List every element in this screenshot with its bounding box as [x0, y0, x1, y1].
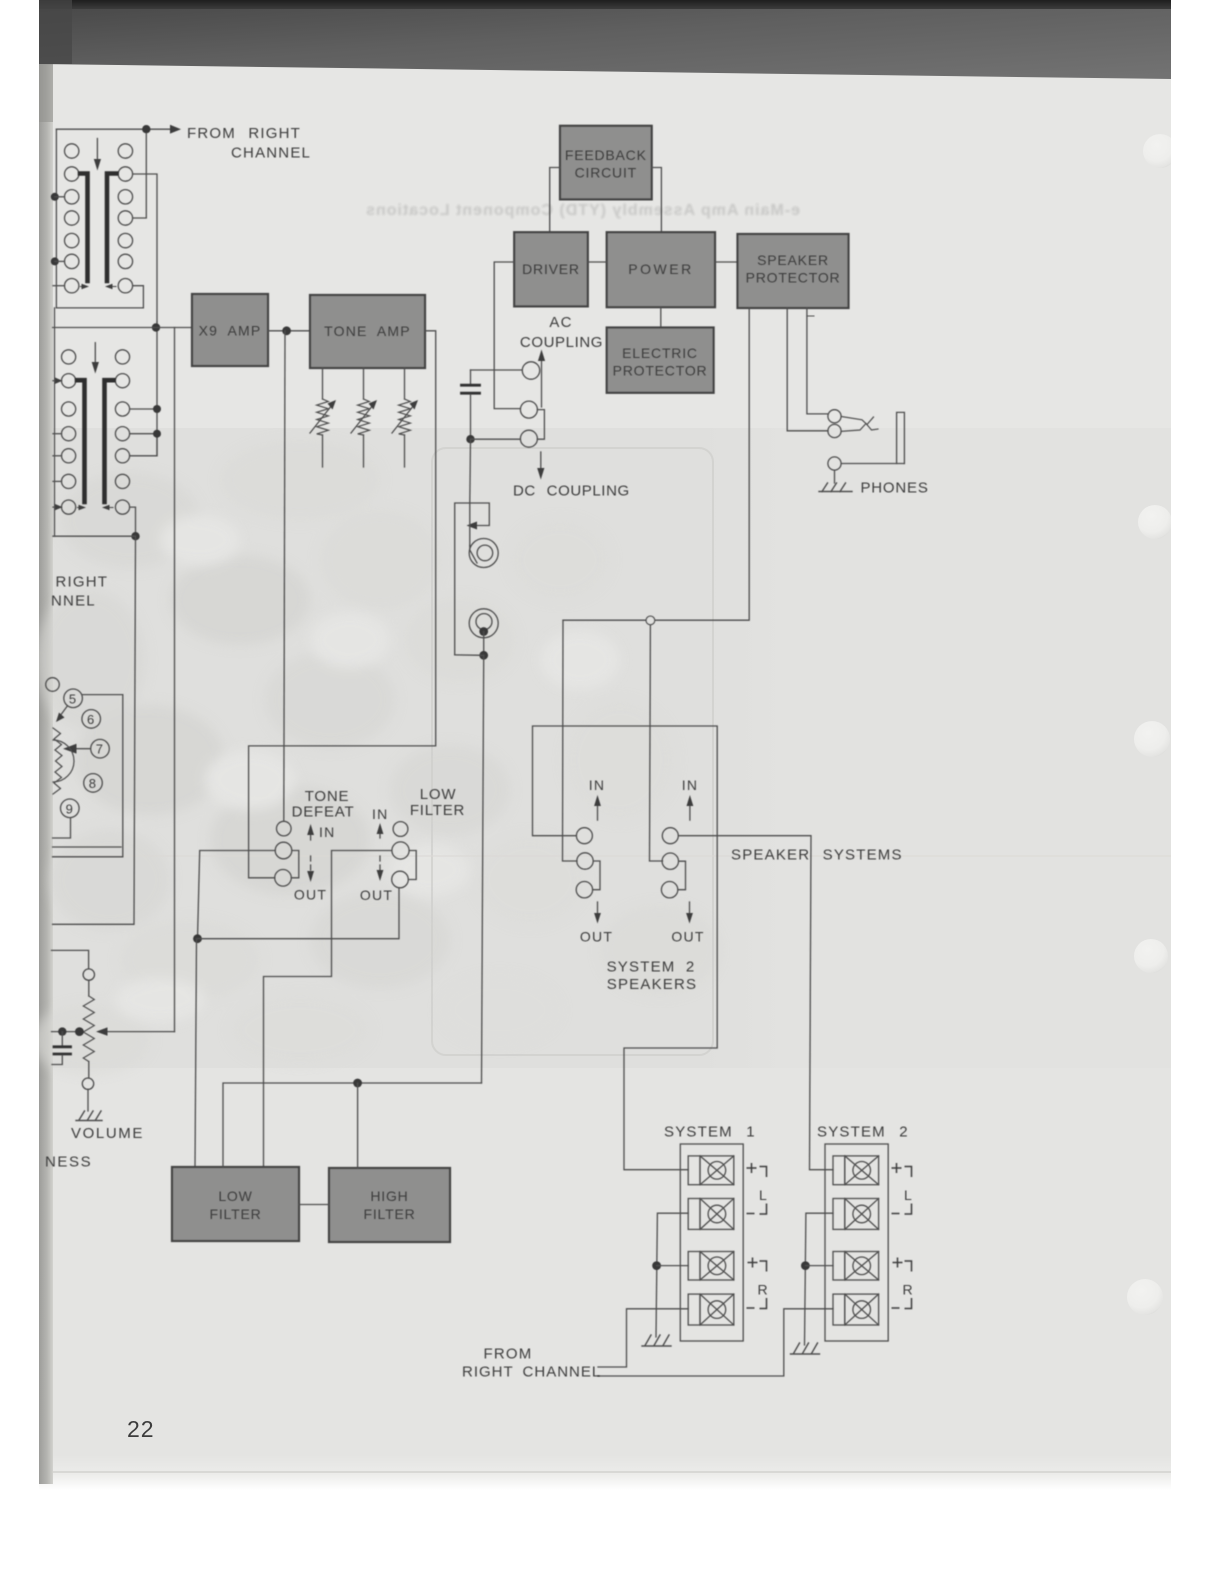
terminal 2 -L	[688, 1199, 734, 1230]
svg-text:IN: IN	[372, 806, 388, 822]
switch A contact bottom	[576, 882, 592, 898]
svg-text:R: R	[903, 1282, 914, 1298]
svg-text:FILTER: FILTER	[364, 1206, 416, 1222]
resistor volume	[83, 980, 94, 1078]
ground phones	[819, 483, 852, 492]
svg-text:IN: IN	[319, 824, 335, 840]
svg-text:SYSTEM 1: SYSTEM 1	[664, 1124, 756, 1141]
rheostat VR bass	[310, 368, 336, 467]
wire TONE AMP out right loop down	[249, 331, 436, 878]
output coil loop rectangle	[455, 503, 490, 655]
arrow switch A out (down)	[597, 902, 599, 916]
wire S1 row7 right to box bottom	[56, 286, 143, 308]
svg-text:OUT: OUT	[294, 887, 327, 903]
switch S2 left wiper bar	[77, 380, 85, 502]
node circle 6	[82, 710, 101, 729]
switch low filter contact bottom	[392, 871, 409, 888]
switch S2 bottom wiper arrow left	[78, 507, 82, 509]
arrow switch B in (up)	[689, 803, 691, 820]
polarity marks system 2 R	[892, 1258, 912, 1309]
wire speaker protector out1 down-left	[563, 308, 749, 620]
wire S2 row4 right to bus B	[130, 433, 157, 435]
node dot wiper	[75, 1027, 84, 1036]
trimmer knob (page edge)	[53, 728, 62, 794]
switch low filter contact top	[393, 822, 408, 837]
ground volume	[76, 1111, 102, 1121]
switch low filter contact mid	[392, 842, 409, 859]
node dot bus B row4	[153, 430, 161, 438]
coil L2 (spiral)	[469, 609, 498, 638]
wire filter bus	[223, 1083, 482, 1167]
svg-text:RIGHT: RIGHT	[56, 574, 109, 591]
svg-text:FROM RIGHT: FROM RIGHT	[187, 125, 301, 142]
node circle 9	[61, 799, 80, 818]
bracket tone defeat	[292, 851, 299, 878]
switch S2 right wiper bar	[105, 380, 114, 502]
wire volume top feed	[52, 950, 89, 969]
switch A contact top	[576, 828, 592, 844]
svg-text:22: 22	[127, 1416, 155, 1442]
svg-text:VOLUME: VOLUME	[71, 1125, 144, 1142]
svg-text:SYSTEM 2: SYSTEM 2	[817, 1124, 909, 1141]
wire S1 row4 right to top node	[133, 133, 147, 218]
capacitor loudness	[52, 1032, 71, 1065]
polarity marks system 1 R	[747, 1258, 767, 1309]
wire frame to switch A top	[533, 726, 718, 1170]
wire stub S2 row5 left	[53, 455, 62, 457]
switch B contact bottom	[661, 882, 677, 898]
svg-text:X9 AMP: X9 AMP	[199, 323, 262, 339]
wire stub S1 row6	[55, 260, 65, 262]
right white margin cover	[1171, 0, 1224, 1584]
wire stub S2 row4 left	[53, 433, 62, 435]
svg-text:5: 5	[69, 691, 77, 706]
wire feedback left to driver top	[550, 168, 560, 233]
wire feedback right to power top	[652, 168, 662, 233]
terminal 1 +L	[688, 1156, 734, 1185]
rheostat VR mid	[351, 368, 377, 467]
svg-text:HIGH: HIGH	[370, 1188, 408, 1204]
terminal volume bottom	[82, 1078, 93, 1089]
wire sys1 -L to ground	[656, 1213, 688, 1337]
wire loudness tap	[52, 1031, 83, 1033]
wire high filter feed	[357, 1083, 359, 1168]
wire DC path to bottom contact	[471, 438, 521, 440]
switch tone defeat contact mid	[275, 842, 292, 859]
phones jack contact top	[828, 410, 841, 423]
svg-text:CIRCUIT: CIRCUIT	[575, 165, 637, 181]
bracket coupling switch	[537, 410, 544, 440]
svg-text:SPEAKERS: SPEAKERS	[607, 976, 697, 993]
phones jack contact mid	[828, 424, 841, 437]
arrow stub S2 row7 left	[53, 506, 62, 508]
wiper arrow volume	[104, 1031, 175, 1033]
node dot high filter feed	[353, 1079, 362, 1088]
wire stub S1 row3	[55, 196, 65, 198]
svg-text:OUT: OUT	[671, 929, 704, 945]
ground system 1	[642, 1335, 671, 1346]
node dot DC path	[466, 435, 474, 443]
node dot S1 row3 left edge	[51, 193, 59, 201]
svg-text:TONE AMP: TONE AMP	[324, 323, 411, 339]
wire sys1 -R from right channel	[598, 1309, 688, 1367]
switch B contact mid	[662, 853, 678, 869]
switch S1 bottom wiper arrow left	[81, 286, 85, 288]
wire volume ground stub	[87, 1089, 89, 1111]
arrow stub S2 row2 left	[53, 380, 62, 382]
svg-text:e-Main Amp Assembly (YTD) Comp: e-Main Amp Assembly (YTD) Component Loca…	[365, 202, 800, 219]
svg-text:RIGHT CHANNEL: RIGHT CHANNEL	[462, 1364, 601, 1381]
node circle 5	[64, 689, 83, 708]
switch S2 rotation arrow	[94, 343, 96, 365]
arrow switch B out (down)	[689, 902, 691, 916]
terminal strip 2 outline	[825, 1144, 888, 1341]
node dot under coil L2	[479, 627, 488, 636]
wire sys2 -R from right channel	[598, 1309, 833, 1376]
arrow low filter out (down, dashed)	[379, 856, 381, 873]
node connector open circle	[646, 616, 655, 625]
wire stub S2 row6 left	[53, 480, 62, 482]
node dot sys2 common	[801, 1261, 810, 1270]
wire S2 row5 right hook to bus B	[130, 434, 157, 456]
node dot bus B row3	[153, 405, 161, 413]
wire tone defeat mid to left	[198, 851, 276, 939]
svg-text:DC COUPLING: DC COUPLING	[513, 483, 630, 500]
node dot loudness cap	[58, 1027, 66, 1035]
pointer from circle 5	[60, 706, 68, 716]
wire X9 to TONE AMP	[268, 330, 310, 332]
ghost printing bleed-through	[365, 202, 800, 219]
bus B vertical (selector output)	[156, 322, 158, 456]
bracket switch B	[678, 861, 686, 890]
watermark / bleedthrough	[30, 202, 1171, 1075]
node dot speaker feed junction	[479, 651, 488, 660]
wire driver input from coupling switch	[494, 262, 520, 409]
wire into coil L1	[469, 503, 471, 546]
switch B contact top	[662, 828, 678, 844]
switch S2 bottom wiper arrow right	[109, 507, 113, 509]
node dot lower-left feed	[131, 532, 139, 540]
wire loop return	[455, 654, 484, 656]
svg-text:8: 8	[89, 776, 97, 791]
pointer from circle 7	[76, 748, 91, 750]
switch S1 bottom wiper arrow right	[112, 286, 116, 288]
switch AC/DC coupling contact bottom	[520, 430, 537, 447]
svg-text:SPEAKER: SPEAKER	[757, 252, 829, 268]
arrow tone defeat out (down, dashed)	[310, 856, 312, 874]
capacitor AC coupling	[462, 370, 523, 439]
svg-text:FROM: FROM	[484, 1346, 533, 1363]
svg-text:IN: IN	[589, 777, 605, 793]
wire low filter mid to block	[264, 851, 392, 1168]
svg-text:PROTECTOR: PROTECTOR	[613, 363, 708, 379]
switch tone defeat contact top	[277, 821, 292, 836]
svg-text:TONE: TONE	[305, 788, 350, 805]
svg-text:L: L	[759, 1187, 768, 1203]
wire low-high filter	[299, 1204, 329, 1206]
blue mark at bottom	[124, 1573, 268, 1575]
polarity marks system 2 L	[892, 1163, 912, 1214]
switch S1 right wiper bar	[107, 174, 117, 282]
wire S2 row7 to lower-left feed	[130, 507, 136, 536]
switch S1 left contact column	[65, 144, 79, 293]
phones jack contact spring mid	[841, 424, 878, 432]
wire callout lower stub	[53, 846, 121, 848]
svg-text:DEFEAT: DEFEAT	[292, 804, 355, 821]
wire X9 AMP input bus	[53, 327, 192, 329]
wire junction down to tone defeat	[284, 331, 285, 822]
arrow switch A in (up)	[597, 803, 599, 820]
svg-text:NESS: NESS	[45, 1154, 92, 1171]
phones jack sleeve	[897, 412, 905, 463]
switch S2 right contact column	[115, 350, 129, 514]
wire phones ground stub	[834, 470, 836, 483]
ground system 2	[791, 1343, 820, 1354]
terminal 3 +R	[688, 1252, 734, 1281]
tick mark on out3	[807, 315, 814, 317]
wire lower-left feed down to edge	[53, 536, 136, 924]
svg-text:COUPLING: COUPLING	[520, 334, 603, 351]
node circle 8	[84, 774, 103, 793]
phones jack contact spring top	[841, 417, 873, 425]
wire speaker protector out3 to phones top	[807, 308, 828, 414]
wire power to electric protector	[660, 307, 662, 327]
wire stub S1 row7 left	[53, 285, 65, 287]
switch S1 rotation arrow	[96, 139, 98, 163]
switch S2 left contact column	[62, 350, 76, 514]
wire speaker protector out2 to phones mid	[787, 308, 828, 431]
faint photo outline	[432, 448, 713, 1055]
svg-text:AC: AC	[549, 314, 572, 331]
arrowhead FROM RIGHT CHANNEL	[170, 125, 181, 134]
punch holes	[1127, 134, 1177, 1315]
arrow AC coupling up	[541, 358, 543, 407]
wire out bus to low filter switch	[198, 888, 400, 939]
wire speaker feed long vertical down	[482, 655, 484, 1083]
wire DC path down to output loop	[469, 439, 472, 503]
bracket switch A	[593, 861, 600, 890]
terminal 1 +L (sys2)	[833, 1156, 879, 1185]
svg-text:DRIVER: DRIVER	[522, 261, 580, 277]
rheostat VR treble	[392, 368, 418, 467]
svg-text:OUT: OUT	[360, 887, 393, 903]
switch A contact mid	[577, 853, 593, 869]
wire bus to volume wiper (long vertical)	[174, 328, 176, 1032]
svg-text:LOW: LOW	[218, 1188, 252, 1204]
svg-text:CHANNEL: CHANNEL	[231, 145, 311, 162]
svg-text:POWER: POWER	[628, 261, 693, 277]
polarity marks system 1 L	[747, 1163, 767, 1214]
switch AC/DC coupling contact mid	[520, 401, 537, 418]
node circle 4 (partial at edge)	[46, 678, 60, 692]
svg-text:R: R	[758, 1282, 769, 1298]
switch AC/DC coupling contact top	[522, 362, 539, 379]
wire S1 left edge	[55, 129, 57, 308]
svg-text:L: L	[904, 1187, 913, 1203]
terminal volume top	[83, 969, 94, 980]
wire node to switch B mid	[650, 625, 663, 861]
svg-text:OUT: OUT	[580, 929, 613, 945]
wire driver-power	[588, 261, 607, 263]
wire circle 9 stub	[53, 818, 71, 838]
svg-text:SPEAKER SYSTEMS: SPEAKER SYSTEMS	[731, 847, 903, 864]
junction dot node S1 top	[142, 125, 150, 133]
svg-text:7: 7	[96, 742, 104, 757]
svg-text:IN: IN	[682, 777, 698, 793]
svg-text:LOW: LOW	[420, 786, 457, 803]
svg-text:PROTECTOR: PROTECTOR	[746, 270, 841, 286]
wire callout frame from circle 5	[53, 695, 123, 857]
wire sleeve to jack	[841, 463, 904, 465]
wire left branch to switch A mid	[563, 620, 578, 861]
svg-text:FILTER: FILTER	[410, 802, 465, 819]
arrowhead coil loop	[467, 522, 478, 530]
wire sys2 -L to ground	[805, 1213, 834, 1345]
wire sys1 +R	[657, 1265, 689, 1267]
wire out bus down to LOW FILTER block	[195, 939, 197, 1167]
switch S1 right contact column	[118, 144, 132, 293]
wire lower-left feed stub	[53, 535, 136, 537]
wire switch B top to system2 strip	[679, 836, 834, 1170]
switch tone defeat contact bottom	[275, 870, 292, 887]
svg-text:PHONES: PHONES	[861, 480, 929, 497]
wire L2 to junction	[483, 632, 485, 656]
wire sys2 +R	[805, 1265, 833, 1267]
node dot tone defeat out	[193, 934, 202, 943]
switch S1 left wiper bar	[80, 174, 88, 282]
terminal 4 -R	[688, 1294, 734, 1325]
wire S1 row2 right to bus B	[133, 174, 157, 322]
node circle 7	[91, 739, 110, 758]
node dot bus B at X9 feed	[152, 323, 160, 331]
arrow tone defeat in (up)	[310, 831, 312, 840]
node dot sys1 common	[652, 1261, 661, 1270]
svg-text:9: 9	[66, 801, 74, 816]
wire power-speaker protector	[715, 261, 738, 263]
svg-text:FILTER: FILTER	[210, 1206, 262, 1222]
terminal 4 -R (sys2)	[833, 1294, 879, 1325]
terminal 2 -L (sys2)	[833, 1199, 879, 1230]
svg-text:FEEDBACK: FEEDBACK	[565, 147, 647, 163]
arrow DC coupling down	[540, 452, 542, 471]
coil L1 (spiral)	[469, 539, 498, 568]
node dot S1 row6 left edge	[51, 257, 59, 265]
svg-text:NNEL: NNEL	[51, 593, 96, 610]
wire S1 top feed to FROM RIGHT CHANNEL	[56, 128, 172, 130]
wire S2 row3 right to bus B	[130, 408, 157, 410]
svg-text:SYSTEM 2: SYSTEM 2	[607, 959, 696, 976]
bracket low filter	[408, 851, 416, 880]
phones jack contact sleeve	[828, 457, 841, 470]
svg-text:ELECTRIC: ELECTRIC	[622, 345, 698, 361]
wire left edge vertical S1-S2	[54, 308, 56, 536]
svg-text:6: 6	[87, 712, 95, 727]
arrow low filter in (up)	[379, 830, 381, 838]
node dot X9-TONE junction	[282, 326, 291, 335]
terminal strip 1 outline	[680, 1144, 743, 1341]
terminal 3 +R (sys2)	[833, 1252, 879, 1281]
